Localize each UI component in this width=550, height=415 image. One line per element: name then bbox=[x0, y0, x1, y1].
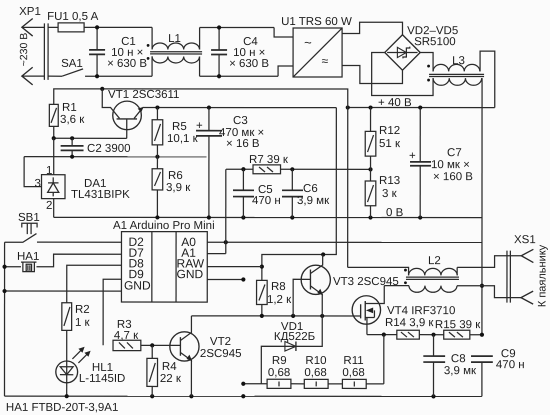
svg-text:КД522Б: КД522Б bbox=[274, 331, 315, 343]
svg-text:L3: L3 bbox=[452, 55, 465, 67]
svg-text:R11: R11 bbox=[343, 355, 363, 367]
svg-text:3 к: 3 к bbox=[382, 188, 398, 200]
svg-text:XS1: XS1 bbox=[514, 234, 536, 246]
svg-text:U1 TRS 60 W: U1 TRS 60 W bbox=[281, 16, 352, 28]
svg-text:C3: C3 bbox=[233, 115, 248, 127]
svg-text:R14 3,9 к: R14 3,9 к bbox=[385, 317, 434, 329]
svg-text:VT4 IRF3710: VT4 IRF3710 bbox=[387, 305, 455, 317]
svg-text:HA1: HA1 bbox=[17, 251, 39, 263]
svg-text:XP1: XP1 bbox=[19, 6, 41, 18]
svg-text:1 к: 1 к bbox=[75, 317, 91, 329]
svg-text:× 630 В: × 630 В bbox=[229, 58, 269, 70]
svg-text:~230 В: ~230 В bbox=[18, 33, 30, 67]
svg-text:GND: GND bbox=[124, 279, 151, 293]
svg-text:10 мк ×: 10 мк × bbox=[431, 159, 470, 171]
svg-text:0,68: 0,68 bbox=[268, 367, 290, 379]
svg-text:GND: GND bbox=[177, 267, 204, 281]
svg-text:FU1 0,5 A: FU1 0,5 A bbox=[47, 11, 98, 23]
svg-text:0,68: 0,68 bbox=[304, 367, 326, 379]
svg-text:R15 39 к: R15 39 к bbox=[435, 319, 481, 331]
svg-text:+ 40 В: + 40 В bbox=[378, 97, 412, 109]
svg-text:2SC945: 2SC945 bbox=[200, 348, 242, 360]
svg-text:× 630 В: × 630 В bbox=[107, 58, 147, 70]
svg-text:SB1: SB1 bbox=[18, 212, 40, 224]
svg-text:10,1 к: 10,1 к bbox=[167, 133, 199, 145]
svg-text:22 к: 22 к bbox=[160, 373, 182, 385]
svg-text:≈: ≈ bbox=[322, 54, 329, 68]
svg-text:0 В: 0 В bbox=[386, 207, 404, 219]
svg-text:C2 3900: C2 3900 bbox=[87, 143, 130, 155]
svg-text:TL431BIPK: TL431BIPK bbox=[71, 189, 130, 201]
svg-text:R5: R5 bbox=[172, 121, 187, 133]
svg-text:L-1145ID: L-1145ID bbox=[79, 373, 125, 385]
svg-text:A1 Arduino Pro Mini: A1 Arduino Pro Mini bbox=[113, 220, 215, 232]
svg-text:R12: R12 bbox=[379, 125, 400, 137]
svg-text:R8: R8 bbox=[271, 281, 286, 293]
svg-text:R6: R6 bbox=[168, 170, 183, 182]
svg-text:VT2: VT2 bbox=[210, 336, 231, 348]
svg-text:× 160 В: × 160 В bbox=[433, 171, 473, 183]
svg-text:R4: R4 bbox=[162, 361, 177, 373]
svg-text:R13: R13 bbox=[379, 175, 400, 187]
svg-text:3: 3 bbox=[35, 178, 41, 190]
svg-text:470 н: 470 н bbox=[252, 195, 281, 207]
svg-text:470 н: 470 н bbox=[496, 359, 525, 371]
svg-text:C6: C6 bbox=[303, 183, 318, 195]
svg-text:R2: R2 bbox=[75, 304, 90, 316]
svg-text:C8: C8 bbox=[451, 353, 466, 365]
svg-text:К паяльнику: К паяльнику bbox=[536, 244, 548, 307]
svg-text:SR5100: SR5100 bbox=[414, 36, 456, 48]
svg-text:2: 2 bbox=[46, 200, 52, 212]
svg-text:L2: L2 bbox=[428, 255, 441, 267]
svg-text:3,9 мк: 3,9 мк bbox=[297, 195, 330, 207]
svg-text:51 к: 51 к bbox=[379, 138, 401, 150]
svg-text:+: + bbox=[409, 150, 416, 162]
svg-text:VT1 2SC3611: VT1 2SC3611 bbox=[108, 89, 179, 101]
svg-text:× 16 В: × 16 В bbox=[226, 138, 260, 150]
svg-text:3,9 к: 3,9 к bbox=[166, 182, 191, 194]
svg-text:3,9 мк: 3,9 мк bbox=[444, 365, 477, 377]
svg-text:1,2 к: 1,2 к bbox=[267, 294, 292, 306]
svg-text:R7 39 к: R7 39 к bbox=[249, 154, 289, 166]
svg-text:C7: C7 bbox=[447, 147, 462, 159]
svg-text:~: ~ bbox=[304, 35, 312, 50]
svg-text:+: + bbox=[196, 120, 203, 132]
svg-text:1: 1 bbox=[46, 165, 52, 177]
svg-text:НА1 FTBD-20T-3,9A1: НА1 FTBD-20T-3,9A1 bbox=[6, 402, 118, 414]
svg-text:R9: R9 bbox=[272, 355, 287, 367]
svg-text:0,68: 0,68 bbox=[342, 367, 364, 379]
svg-text:3,6 к: 3,6 к bbox=[60, 114, 85, 126]
svg-text:SA1: SA1 bbox=[61, 58, 83, 70]
svg-text:R10: R10 bbox=[305, 355, 326, 367]
svg-text:R1: R1 bbox=[62, 102, 77, 114]
